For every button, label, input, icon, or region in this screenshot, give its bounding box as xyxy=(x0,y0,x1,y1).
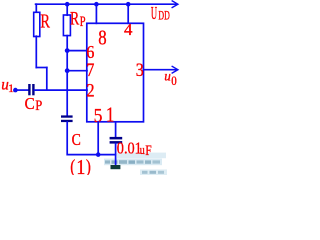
capacitor 0.01uF plate bottom xyxy=(110,141,123,144)
wire: C bottom to ground rail xyxy=(67,122,115,155)
svg-text:8: 8 xyxy=(98,25,106,49)
svg-text:1: 1 xyxy=(8,81,14,95)
resistor R xyxy=(34,12,40,36)
svg-text:(: ( xyxy=(70,157,75,175)
svg-text:7: 7 xyxy=(86,61,94,81)
wire: pin 6 stub xyxy=(67,50,87,52)
wire: Rp top lead xyxy=(66,4,68,15)
capacitor Cp plate right xyxy=(32,84,34,95)
wire: top VDD rail xyxy=(36,3,177,5)
op-amp/timer IC U1 box xyxy=(87,23,144,122)
wire: pin 4 stub xyxy=(127,4,129,23)
watermark row2 xyxy=(104,159,162,166)
node u0 arrowhead xyxy=(172,66,178,73)
wire: pin 5 stub down xyxy=(97,122,99,155)
watermark row3 bottom right xyxy=(140,169,167,175)
node dot pin4 top rail xyxy=(126,2,131,7)
wire: Rp bottom lead down to cap C xyxy=(66,36,68,116)
wire: drop to trigger line xyxy=(46,68,48,91)
wire: pin 3 output xyxy=(144,69,177,71)
svg-text:0.01: 0.01 xyxy=(117,138,142,157)
ground xyxy=(111,165,121,169)
svg-text:3: 3 xyxy=(136,60,144,81)
svg-text:F: F xyxy=(145,143,151,159)
wire: u1 to Cp xyxy=(15,89,28,91)
watermark light patch row1 xyxy=(117,153,166,159)
svg-text:0: 0 xyxy=(171,74,177,88)
svg-text:): ) xyxy=(86,157,91,175)
wire: R elbow horizontal xyxy=(36,67,47,69)
svg-text:1: 1 xyxy=(106,103,115,127)
node dot at Rp top xyxy=(65,2,70,7)
svg-text:R: R xyxy=(70,8,79,29)
resistor Rp xyxy=(63,15,70,36)
wire: R top lead xyxy=(35,4,37,12)
svg-text:C: C xyxy=(72,130,81,149)
svg-text:P: P xyxy=(35,98,42,114)
capacitor Cp plate left xyxy=(28,84,30,95)
svg-text:P: P xyxy=(80,14,86,30)
node dot pin5 ground junction xyxy=(96,152,101,157)
svg-text:u: u xyxy=(164,69,171,84)
svg-text:C: C xyxy=(25,94,35,113)
node VDD arrowhead xyxy=(172,1,178,8)
svg-text:DD: DD xyxy=(158,8,169,23)
wire: pin 8 stub xyxy=(95,4,97,23)
wire: 0.01uF to ground xyxy=(115,144,117,166)
svg-text:R: R xyxy=(40,11,50,33)
node u1 input dot xyxy=(13,88,18,93)
svg-text:U: U xyxy=(151,3,157,23)
capacitor C plate bottom xyxy=(61,120,73,122)
wire: pin 1 stub down xyxy=(115,122,117,137)
wire: pin 7 stub xyxy=(67,70,87,72)
node dot pin6 junction xyxy=(65,48,70,53)
svg-text:1: 1 xyxy=(76,155,85,175)
wire: R bottom lead down xyxy=(35,36,37,67)
capacitor 0.01uF plate top xyxy=(110,137,123,140)
wire: trigger line Cp to pin 2 xyxy=(35,89,87,91)
svg-text:6: 6 xyxy=(86,42,94,62)
capacitor C plate top xyxy=(61,115,73,117)
node dot pin7 junction xyxy=(65,68,70,73)
svg-text:2: 2 xyxy=(86,81,94,102)
node dot pin8 top rail xyxy=(94,2,99,7)
